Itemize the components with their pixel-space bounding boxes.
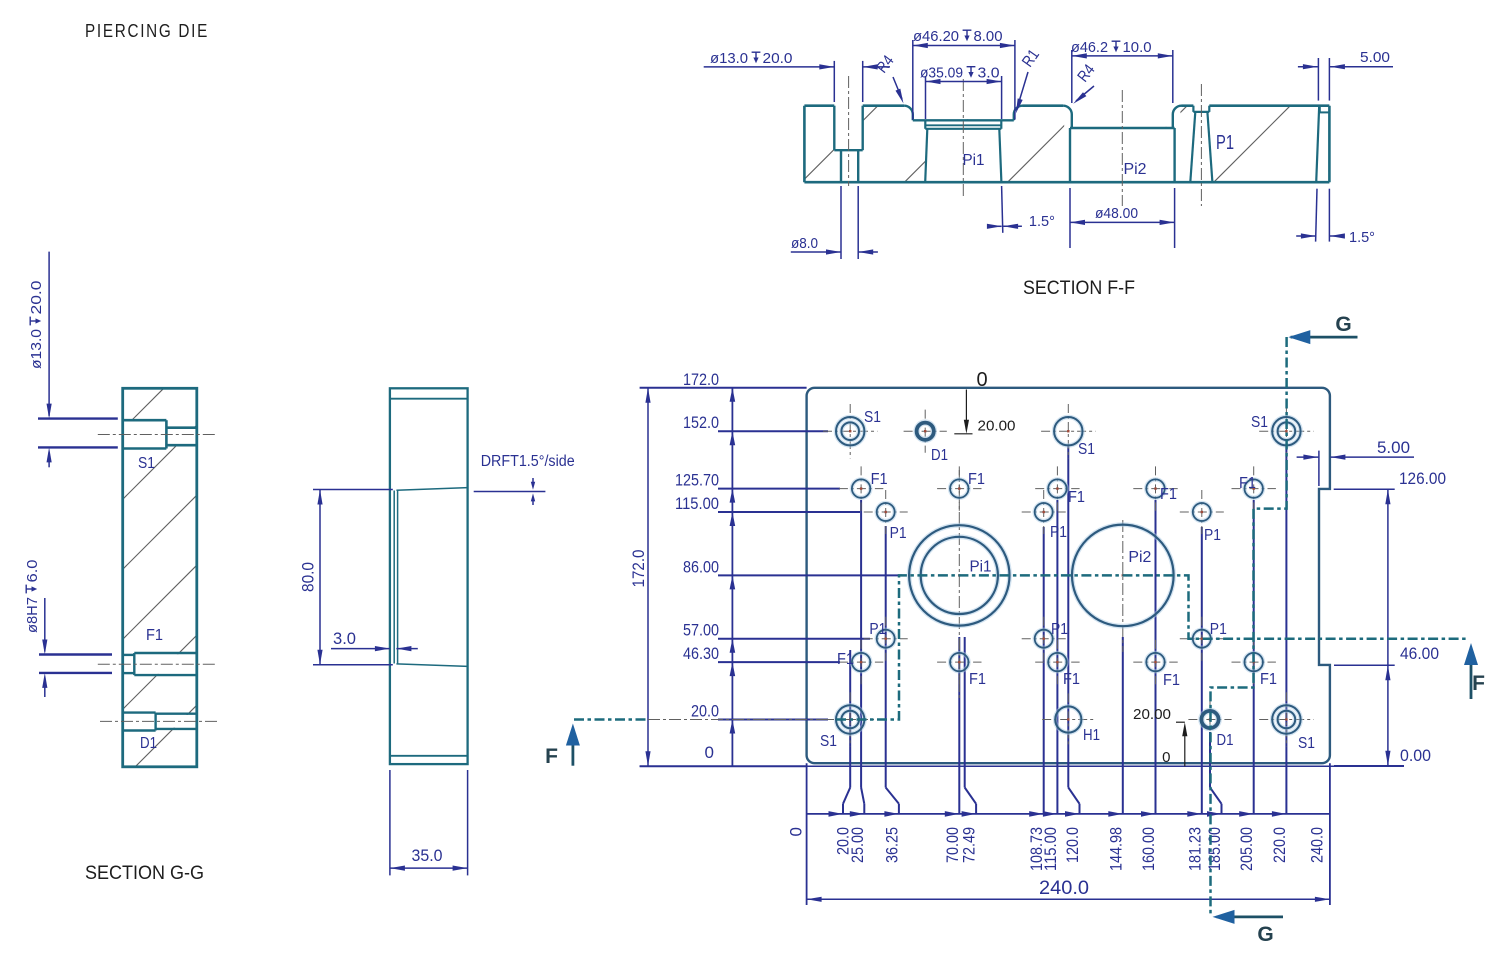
svg-text:P1: P1 — [1210, 621, 1227, 638]
hole P1 plan (181.23,57) — [1180, 617, 1227, 661]
ordinate dim X=220.0 — [1270, 446, 1289, 863]
dim phi46.20 depth8.00 (Pi1) — [913, 28, 1015, 120]
datum 0 at top / 20.00 (black) — [954, 369, 1015, 435]
annotation DRFT1.5deg/side — [474, 453, 575, 505]
dim phi46.2 depth10.0 (Pi2) — [1071, 39, 1173, 103]
label P1 (section F-F) — [1216, 132, 1234, 154]
svg-text:S1: S1 — [1251, 414, 1268, 431]
Y ladder dim 152.0 — [683, 413, 828, 445]
hole D1 plan (54.4,152) — [904, 410, 948, 464]
svg-text:46.00: 46.00 — [1400, 644, 1439, 663]
side view bottom edge line — [390, 755, 468, 757]
datum 0 at bottom / 20.00 (black) — [1133, 706, 1187, 766]
svg-text:ø46.20: ø46.20 — [913, 28, 959, 45]
label S1 (section G-G) — [138, 455, 155, 472]
Y ladder dim 57.00 — [683, 621, 870, 653]
ordinate dim X=0 label — [787, 827, 806, 836]
label Pi1 (section F-F) — [963, 152, 985, 169]
svg-text:0: 0 — [705, 743, 714, 762]
side view recess wall lines — [394, 491, 397, 664]
hole F1 plan (70,46.3) — [937, 640, 986, 688]
hole Pi1 plan (70,86) — [909, 470, 1009, 700]
svg-text:240.0: 240.0 — [1308, 827, 1327, 863]
svg-text:P1: P1 — [1051, 621, 1068, 638]
svg-text:F1: F1 — [1163, 672, 1180, 689]
hole P1 plan (36.25,57) — [864, 617, 908, 661]
svg-text:G: G — [1257, 923, 1273, 946]
svg-text:6.0: 6.0 — [24, 560, 41, 583]
svg-text:72.49: 72.49 — [960, 827, 979, 863]
section F-F right notch (5.00 taper) — [1316, 106, 1329, 183]
centerline S1 section G-G — [98, 434, 217, 436]
dim phi8H7 depth6.0 (section G-G, rotated) — [24, 560, 112, 698]
svg-text:5.00: 5.00 — [1377, 438, 1410, 457]
svg-text:3.0: 3.0 — [978, 65, 1000, 82]
svg-text:ø35.09: ø35.09 — [920, 65, 963, 82]
centerline F1 section G-G — [98, 663, 218, 665]
svg-text:D1: D1 — [1217, 732, 1234, 749]
svg-text:PIERCING DIE: PIERCING DIE — [85, 21, 209, 41]
svg-text:20.0: 20.0 — [763, 50, 793, 67]
svg-text:SECTION F-F: SECTION F-F — [1023, 277, 1135, 299]
svg-text:1.5°: 1.5° — [1349, 229, 1375, 246]
arrow G (top) — [1288, 313, 1357, 344]
arrow F (left) — [545, 724, 580, 769]
dim phi13.0 depth20.0 (section G-G, rotated) — [28, 252, 118, 468]
section F-F hole whiteouts — [835, 104, 1328, 181]
svg-text:F1: F1 — [968, 471, 985, 488]
svg-text:172.0: 172.0 — [683, 370, 719, 389]
hole P1 plan (36.25,115) — [864, 490, 908, 542]
ordinate dim X=36.25 — [882, 526, 901, 863]
svg-text:36.25: 36.25 — [882, 827, 901, 863]
centerline D1 section G-G — [100, 720, 217, 722]
cutting plane line G-G (teal dash-dot) — [1211, 337, 1287, 915]
svg-text:Pi2: Pi2 — [1128, 549, 1151, 566]
svg-text:20.00: 20.00 — [1133, 706, 1171, 723]
side view outline — [390, 388, 468, 764]
dim phi8.0 (section F-F) — [791, 186, 878, 259]
svg-text:Pi1: Pi1 — [963, 152, 985, 169]
ordinate dim X=205.00 — [1237, 500, 1256, 871]
svg-text:20.0: 20.0 — [28, 281, 45, 315]
svg-text:5.00: 5.00 — [1360, 49, 1390, 66]
svg-text:S1: S1 — [1078, 441, 1095, 458]
dim 5.00 (section F-F right notch) — [1298, 49, 1393, 101]
svg-text:220.0: 220.0 — [1270, 827, 1289, 863]
title SECTION G-G — [85, 862, 204, 884]
title SECTION F-F — [1023, 277, 1135, 299]
hole Pi2 plan (144.98,86) — [1072, 520, 1174, 652]
svg-text:8.00: 8.00 — [974, 28, 1003, 45]
Y ladder dim 115.00 — [675, 494, 860, 526]
hole F1 plan (160,125.7) — [1133, 466, 1177, 510]
svg-text:35.0: 35.0 — [412, 846, 443, 865]
plan view plate outline — [807, 388, 1330, 763]
section F-F hole P1 (tapered) — [1190, 106, 1212, 183]
svg-text:86.00: 86.00 — [683, 557, 719, 576]
Y ladder dim 86.00 — [683, 557, 902, 589]
svg-text:ø48.00: ø48.00 — [1095, 205, 1138, 222]
svg-text:D1: D1 — [140, 735, 157, 752]
label D1 (section G-G) — [140, 735, 157, 752]
label Pi2 (section F-F) — [1124, 161, 1147, 178]
label F1 (section G-G) — [146, 627, 163, 644]
dim phi13.0 depth20.0 (section F-F) — [704, 50, 890, 102]
hole S1 plan (220,152) — [1251, 404, 1314, 458]
svg-text:S1: S1 — [138, 455, 155, 472]
ordinate extension X=240 (plate right) — [1329, 763, 1331, 905]
section G-G hatching — [123, 388, 197, 767]
arrow G (bottom) — [1213, 910, 1284, 946]
dim 80.0 (side view, rotated) — [299, 490, 393, 665]
svg-text:205.00: 205.00 — [1237, 827, 1256, 871]
svg-text:120.0: 120.0 — [1063, 827, 1082, 863]
svg-text:F1: F1 — [969, 671, 986, 688]
section G-G hole whiteouts — [122, 421, 196, 729]
side view draft line bottom — [396, 664, 467, 667]
svg-text:ø46.2: ø46.2 — [1071, 39, 1108, 56]
Y ladder dim 125.70 — [675, 471, 840, 503]
svg-text:ø13.0: ø13.0 — [28, 329, 45, 369]
centerline Pi1 section F-F — [962, 79, 964, 199]
svg-text:P1: P1 — [1050, 524, 1067, 541]
svg-text:F: F — [545, 745, 558, 768]
svg-text:115.00: 115.00 — [1041, 827, 1060, 871]
ordinate dim X=185.00 — [1205, 732, 1224, 871]
svg-text:185.00: 185.00 — [1205, 827, 1224, 871]
svg-text:57.00: 57.00 — [683, 621, 719, 640]
ordinate dim X=120.0 — [1063, 446, 1082, 863]
svg-text:181.23: 181.23 — [1185, 827, 1204, 871]
section F-F body outline — [804, 106, 1329, 183]
svg-text:80.0: 80.0 — [299, 562, 318, 592]
dim 3.0 (side view) — [331, 629, 418, 651]
Y ladder dim 46.30 — [683, 644, 840, 676]
side view draft line top — [396, 488, 467, 491]
svg-text:152.0: 152.0 — [683, 413, 719, 432]
svg-text:S1: S1 — [1298, 735, 1315, 752]
svg-text:F: F — [1472, 672, 1485, 695]
svg-text:H1: H1 — [1083, 727, 1100, 744]
Y ordinate ladder vertical — [731, 388, 733, 766]
Y ladder 0 label and baseline — [640, 743, 1404, 766]
arrow F (right) — [1464, 643, 1485, 699]
svg-text:20.0: 20.0 — [691, 702, 719, 721]
hole S1 plan (220,20) — [1259, 692, 1315, 752]
hole H1 plan (120,20) — [1042, 693, 1100, 745]
ordinate dim X=72.49 — [960, 637, 979, 863]
ordinate dimension baseline (X) — [807, 813, 1330, 815]
section G-G body outline — [123, 388, 197, 767]
svg-text:ø8H7: ø8H7 — [24, 597, 41, 633]
svg-text:25.00: 25.00 — [848, 827, 867, 863]
hole F1 plan (25,46.3) — [837, 640, 883, 684]
Y ladder dim 20.0 — [691, 702, 828, 734]
svg-text:G: G — [1335, 313, 1351, 336]
svg-text:115.00: 115.00 — [675, 494, 719, 513]
svg-text:F1: F1 — [146, 627, 163, 644]
ordinate dim X=115.00 — [1041, 500, 1060, 871]
dim 1.5deg (Pi1 taper) — [987, 186, 1055, 233]
hole D1 plan (185,20) — [1188, 698, 1233, 749]
dim 1.5deg (right notch taper) — [1296, 189, 1375, 246]
svg-text:20.00: 20.00 — [978, 418, 1016, 435]
section G-G hole F1 (phi8H7) — [123, 653, 197, 675]
hole F1 plan (205,125.7) — [1232, 466, 1276, 510]
dim 126.00 / 46.00 / 0.00 (plan right) — [1334, 469, 1446, 766]
svg-text:F1: F1 — [1160, 486, 1177, 503]
ordinate dim X=160.00 — [1139, 500, 1158, 871]
hole F1 plan (160,46.3) — [1133, 640, 1180, 689]
svg-text:SECTION G-G: SECTION G-G — [85, 862, 204, 884]
ordinate dim X=108.73 — [1027, 527, 1046, 871]
svg-text:S1: S1 — [864, 409, 881, 426]
side view top edge line — [390, 398, 468, 400]
svg-text:F1: F1 — [837, 651, 854, 668]
dim phi48.00 (Pi2) — [1070, 188, 1175, 248]
hole F1 plan (25,125.7) — [839, 466, 888, 510]
svg-text:126.00: 126.00 — [1399, 469, 1446, 488]
dim 5.00 (plan right notch) — [1297, 438, 1414, 486]
cutting plane line F-F (teal dash-dot) — [574, 575, 1466, 719]
ordinate dim X=20.0 — [829, 650, 853, 855]
svg-text:125.70: 125.70 — [675, 471, 719, 490]
svg-text:10.0: 10.0 — [1123, 39, 1152, 56]
hole S1 plan (20,152) — [823, 404, 881, 458]
centerline Pi2 section F-F — [1121, 90, 1123, 206]
svg-text:S1: S1 — [820, 733, 837, 750]
dim 240.0 overall width — [807, 878, 1330, 902]
ordinate dim X=25.00 — [848, 500, 867, 863]
svg-text:F1: F1 — [1239, 475, 1256, 492]
section F-F hatching — [804, 106, 1329, 183]
label R4 leader (Pi2 left) — [1073, 62, 1098, 104]
svg-text:P1: P1 — [890, 525, 907, 542]
svg-text:0: 0 — [787, 827, 806, 836]
svg-text:P1: P1 — [1204, 527, 1221, 544]
Y ladder dim 172.0 — [683, 370, 735, 402]
dim 172.0 (overall height, rotated) — [629, 388, 807, 766]
dim phi35.09 depth3.0 (Pi1) — [920, 65, 1002, 120]
ordinate extension X=0 (plate left) — [806, 763, 808, 905]
centerline S1 section F-F — [848, 76, 850, 186]
dim 35.0 (side view) — [390, 770, 468, 875]
svg-text:240.0: 240.0 — [1039, 878, 1089, 899]
hole P1 plan (108.73,115) — [1022, 490, 1067, 541]
ordinate dim X=70.00 — [943, 637, 962, 863]
svg-text:1.5°: 1.5° — [1029, 213, 1055, 230]
svg-text:172.0: 172.0 — [629, 550, 648, 588]
svg-text:D1: D1 — [931, 447, 948, 464]
section F-F hole Pi1 (phi46.2 cb / phi35.09 / taper) — [904, 106, 1022, 183]
svg-text:0: 0 — [976, 369, 987, 391]
svg-text:0.00: 0.00 — [1400, 746, 1431, 765]
hole S1 plan (120,152) — [1041, 404, 1095, 458]
svg-text:Pi2: Pi2 — [1124, 161, 1147, 178]
ordinate dim X=240.0 label — [1308, 827, 1327, 863]
svg-text:46.30: 46.30 — [683, 644, 719, 663]
svg-text:P1: P1 — [869, 621, 886, 638]
svg-text:P1: P1 — [1216, 132, 1234, 154]
svg-text:F1: F1 — [1068, 489, 1085, 506]
hole F1 plan (115,46.3) — [1035, 640, 1080, 688]
svg-text:F1: F1 — [1260, 671, 1277, 688]
svg-text:DRFT1.5°/side: DRFT1.5°/side — [481, 453, 575, 470]
section F-F hole S1 (phi13/phi8) — [834, 106, 862, 183]
label R4 leader (Pi1 left) — [874, 53, 904, 104]
hole F1 plan (115,125.7) — [1035, 466, 1085, 510]
svg-text:3.0: 3.0 — [333, 629, 356, 648]
svg-text:Pi1: Pi1 — [970, 559, 992, 576]
label R1 leader (Pi1 corner) — [1016, 47, 1043, 114]
svg-text:F1: F1 — [871, 471, 888, 488]
section G-G hole D1 (stepped) — [123, 713, 197, 731]
section G-G hole S1 (phi13/phi8) — [123, 420, 197, 448]
hole F1 plan (205,46.3) — [1232, 640, 1278, 688]
ordinate dim X=144.98 — [1106, 637, 1125, 871]
title PIERCING DIE — [85, 21, 209, 41]
hole P1 plan (108.73,57) — [1022, 617, 1068, 661]
svg-text:ø8.0: ø8.0 — [791, 235, 818, 252]
svg-text:144.98: 144.98 — [1106, 827, 1125, 871]
section F-F hole Pi2 (phi46.2 cb / phi48) — [1063, 106, 1181, 183]
ordinate dim X=181.23 — [1185, 527, 1204, 871]
svg-text:ø13.0: ø13.0 — [710, 50, 748, 67]
hole F1 plan (70,125.7) — [937, 466, 985, 510]
hole S1 plan (20,20) — [820, 692, 877, 750]
centerline P1 section F-F — [1200, 84, 1202, 206]
svg-text:F1: F1 — [1063, 671, 1080, 688]
svg-text:0: 0 — [1162, 749, 1170, 766]
svg-text:160.00: 160.00 — [1139, 827, 1158, 871]
hole P1 plan (181.23,115) — [1180, 490, 1224, 544]
